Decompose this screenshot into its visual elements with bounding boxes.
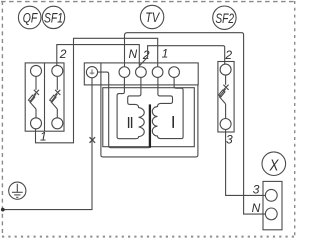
svg-text:QF: QF — [23, 11, 38, 26]
breaker pole QF (left pole) — [28, 65, 41, 128]
svg-text:1: 1 — [162, 47, 169, 61]
breaker SF1 reference label — [42, 6, 64, 28]
frame left — [1, 1, 3, 237]
svg-text:2: 2 — [142, 48, 150, 62]
svg-text:1: 1 — [40, 129, 47, 143]
terminal t2 — [136, 67, 147, 78]
connector X box — [263, 181, 282, 229]
wire ground terminal to core — [98, 72, 150, 148]
wire t2 to SF2 top — [139, 46, 224, 66]
svg-text:X: X — [269, 157, 279, 174]
breaker SF2 reference label — [213, 6, 236, 29]
svg-text:2: 2 — [224, 48, 232, 62]
terminal strip of TV — [84, 63, 198, 85]
svg-text:TV: TV — [145, 10, 161, 25]
svg-text:3: 3 — [253, 182, 260, 196]
winding I label — [172, 116, 174, 128]
wire SF1 pole top to t2 — [57, 45, 140, 67]
wire SF2 bottom to connector X terminal 3 — [226, 130, 266, 196]
svg-text:N: N — [129, 47, 138, 61]
junction dot at earth bus and frame — [1, 208, 5, 212]
svg-text:3: 3 — [226, 133, 233, 147]
winding II with leads to t2 and t1 — [117, 77, 144, 138]
connector X reference label — [262, 152, 286, 176]
frame top — [1, 1, 296, 3]
terminal t3 — [152, 67, 163, 78]
svg-text:2: 2 — [59, 47, 67, 61]
terminal t1 — [119, 67, 130, 78]
transformer TV enclosure box — [103, 88, 195, 147]
svg-text:SF2: SF2 — [215, 11, 234, 26]
wire t1 to connector X terminal N — [125, 33, 266, 214]
ground terminal on strip — [86, 67, 97, 78]
wire strip frame loop under transformer — [101, 63, 198, 157]
svg-text:N: N — [252, 201, 261, 215]
breaker pole SF2 — [219, 64, 231, 129]
svg-text:SF1: SF1 — [44, 10, 63, 25]
connector X terminal N — [265, 208, 277, 220]
breaker pole SF1 (right pole) — [50, 65, 63, 128]
frame bottom — [2, 236, 296, 238]
breaker SF2 box — [218, 62, 234, 133]
breaker QF reference label — [18, 6, 41, 29]
winding I with leads to t3 and t4 — [152, 77, 183, 138]
frame right — [294, 1, 296, 237]
wire ground terminal to earth bus — [3, 78, 92, 210]
terminal t4 — [169, 67, 180, 78]
ground symbol — [9, 182, 26, 199]
transformer TV reference label — [140, 5, 163, 28]
winding II label — [128, 117, 130, 128]
breaker assembly box QF/SF1 — [25, 63, 64, 131]
x mark on ground wire — [90, 137, 96, 143]
transformer core — [149, 104, 151, 147]
connector X terminal 3 — [265, 189, 277, 201]
wire QF pole1 bottom to t3 — [36, 38, 158, 143]
